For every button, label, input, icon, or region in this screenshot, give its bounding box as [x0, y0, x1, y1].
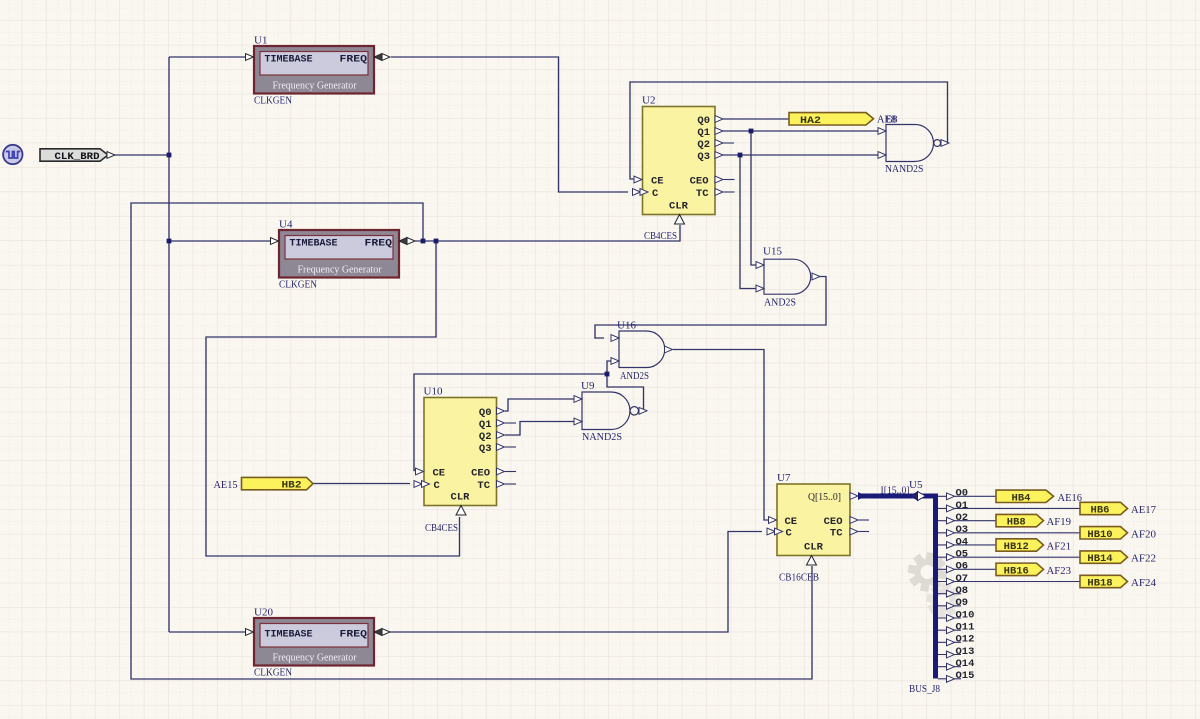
- wire Q1 branch to U15: [751, 131, 757, 265]
- wire U5 tap O14: [938, 666, 961, 668]
- svg-text:NAND2S: NAND2S: [582, 431, 622, 443]
- wire CLK_BRD vertical trunk: [168, 57, 170, 632]
- svg-text:HB10: HB10: [1087, 529, 1112, 541]
- pin O6: [947, 566, 955, 573]
- svg-text:O15: O15: [956, 670, 975, 682]
- svg-text:O13: O13: [956, 646, 975, 658]
- node clear net junction 2: [434, 239, 439, 244]
- wire to U4 TIMEBASE input: [169, 240, 270, 242]
- wire CLK_BRD tag to junction: [115, 154, 169, 156]
- wire clear net to U10 CLR: [206, 241, 460, 556]
- wire Q3 branch to U15: [740, 155, 757, 289]
- svg-text:CE: CE: [651, 176, 664, 188]
- wire U5 tap O6: [938, 568, 996, 570]
- svg-text:CLKGEN: CLKGEN: [254, 95, 292, 107]
- output tag HB14: [1080, 551, 1128, 565]
- pin O1: [947, 505, 955, 512]
- svg-text:U9: U9: [581, 380, 595, 392]
- svg-text:O1: O1: [956, 500, 969, 512]
- input port CLK_BRD: [40, 149, 115, 163]
- pin O2: [947, 517, 955, 524]
- pin O7: [947, 578, 955, 585]
- svg-text:U2: U2: [642, 95, 655, 107]
- wire U10 Q0 to U9 input: [505, 399, 574, 411]
- svg-text:CE: CE: [433, 468, 446, 480]
- wire U5 tap O13: [938, 654, 961, 656]
- wire U2 Q3 to NAND2S input: [723, 154, 878, 156]
- input tag HB2: [242, 477, 314, 491]
- svg-text:CLR: CLR: [804, 542, 824, 554]
- wire U5 tap O5: [938, 556, 1080, 558]
- svg-text:CLKGEN: CLKGEN: [279, 279, 317, 291]
- svg-text:AE16: AE16: [1058, 492, 1083, 504]
- svg-text:Frequency Generator: Frequency Generator: [273, 653, 357, 664]
- svg-text:TIMEBASE: TIMEBASE: [290, 237, 338, 249]
- frequency generator U20: [246, 607, 391, 679]
- output tag HB18: [1080, 575, 1128, 589]
- svg-text:TIMEBASE: TIMEBASE: [265, 53, 313, 65]
- oscillator source icon: [3, 145, 22, 164]
- svg-text:U1: U1: [254, 35, 267, 47]
- output tag HB12: [996, 539, 1044, 553]
- bus U7 Q to U5 thick: [858, 496, 936, 679]
- wire U2 Q0 to HA2 tag: [723, 118, 789, 120]
- wire U5 tap O12: [938, 641, 961, 643]
- pin O4: [947, 542, 955, 549]
- svg-text:E8: E8: [886, 114, 898, 126]
- svg-text:HB8: HB8: [1007, 517, 1026, 529]
- wire U20 FREQ to U7 C: [389, 532, 762, 633]
- wire to U20 TIMEBASE input: [169, 631, 245, 633]
- wire U5 tap O9: [938, 605, 961, 607]
- svg-text:O6: O6: [956, 561, 969, 573]
- svg-text:O7: O7: [956, 573, 969, 585]
- wire U1 FREQ to U2 C: [391, 57, 628, 192]
- wire U10 Q1 stub: [505, 422, 516, 424]
- pin O8: [947, 590, 955, 597]
- wire to U1 TIMEBASE input: [169, 56, 245, 58]
- svg-text:HB16: HB16: [1004, 565, 1029, 577]
- wire U5 tap O15: [938, 678, 961, 680]
- node Q1 junction: [749, 129, 754, 134]
- output tag HB8: [996, 514, 1044, 528]
- svg-text:U5: U5: [909, 479, 923, 491]
- frequency generator U4: [271, 219, 416, 291]
- counter U2 CB4CE: [633, 95, 735, 225]
- svg-text:C: C: [434, 480, 441, 492]
- svg-text:Q2: Q2: [479, 431, 492, 443]
- pin O10: [947, 615, 955, 622]
- svg-text:O9: O9: [956, 597, 969, 609]
- svg-text:CB4CES: CB4CES: [425, 522, 458, 534]
- pin O13: [947, 651, 955, 658]
- output tag HA2: [789, 113, 874, 127]
- svg-text:HB4: HB4: [1012, 492, 1031, 504]
- pin O3: [947, 529, 955, 536]
- svg-text:HA2: HA2: [800, 115, 821, 127]
- nand gate NAND2S (U8): [878, 125, 949, 176]
- wire U16 output to U7 CE: [673, 350, 769, 521]
- svg-text:FREQ: FREQ: [340, 53, 368, 65]
- wire node to U10 CE: [414, 374, 607, 471]
- svg-text:CE: CE: [785, 516, 798, 528]
- output tag HB10: [1080, 527, 1128, 541]
- svg-text:TC: TC: [830, 528, 843, 540]
- pin O9: [947, 602, 955, 609]
- bus pin bowtie on U5: [911, 492, 919, 501]
- wire U15 output to U16 input: [595, 277, 826, 339]
- svg-text:O2: O2: [956, 512, 969, 524]
- svg-text:TC: TC: [477, 480, 490, 492]
- node Q3 junction: [738, 153, 743, 158]
- wire U10 Q3 stub: [505, 446, 516, 448]
- svg-text:BUS_J8: BUS_J8: [909, 683, 940, 695]
- svg-text:U10: U10: [424, 386, 443, 398]
- counter U10 CB4CE: [414, 386, 516, 516]
- svg-text:HB12: HB12: [1004, 541, 1029, 553]
- pin O11: [947, 627, 955, 634]
- svg-text:CEO: CEO: [824, 516, 843, 528]
- wire U5 tap O7: [938, 580, 1080, 582]
- svg-text:Q0: Q0: [697, 115, 710, 127]
- svg-text:AND2S: AND2S: [620, 370, 649, 382]
- svg-text:CLR: CLR: [451, 492, 471, 504]
- svg-text:CLK_BRD: CLK_BRD: [55, 151, 100, 163]
- svg-text:O11: O11: [956, 621, 975, 633]
- svg-text:U7: U7: [777, 472, 791, 484]
- wire U2 Q2 stub: [723, 142, 734, 144]
- svg-text:Q1: Q1: [697, 127, 710, 139]
- wire U4 FREQ clear net main: [415, 225, 680, 241]
- pin O15: [947, 675, 955, 682]
- svg-text:HB6: HB6: [1091, 504, 1110, 516]
- svg-text:Q3: Q3: [697, 151, 710, 163]
- wire U5 tap O8: [938, 593, 961, 595]
- svg-text:Q1: Q1: [479, 419, 492, 431]
- wire U5 tap O1: [938, 507, 1080, 509]
- svg-text:AF20: AF20: [1131, 528, 1156, 540]
- node bus start square: [858, 492, 866, 500]
- node CLK_BRD junction 1: [167, 153, 172, 158]
- output tag HB4: [996, 490, 1054, 504]
- wire U5 tap O3: [938, 532, 1080, 534]
- svg-text:HB2: HB2: [282, 480, 302, 492]
- node clear net junction 1: [421, 239, 426, 244]
- node CLK_BRD junction 2: [167, 239, 172, 244]
- output tag HB16: [996, 563, 1044, 577]
- pin O5: [947, 554, 955, 561]
- pin O0: [947, 493, 955, 500]
- svg-text:NAND2S: NAND2S: [885, 163, 924, 175]
- counter U7 CB16CEB: [767, 472, 869, 565]
- svg-text:CLKGEN: CLKGEN: [254, 667, 292, 679]
- wire HB2 tag to U10 C: [313, 483, 410, 485]
- wire U5 tap O0: [938, 495, 996, 497]
- svg-text:TC: TC: [696, 188, 709, 200]
- svg-text:TIMEBASE: TIMEBASE: [265, 628, 313, 640]
- wire clear net up-left branch: [131, 203, 812, 679]
- svg-text:I[15..0]: I[15..0]: [881, 485, 910, 497]
- svg-text:AF21: AF21: [1047, 540, 1072, 552]
- svg-text:FREQ: FREQ: [340, 628, 368, 640]
- wire U5 tap O10: [938, 617, 961, 619]
- watermark gear large: [908, 552, 948, 592]
- and gate U16 AND2S: [611, 320, 673, 383]
- svg-text:AF24: AF24: [1131, 577, 1156, 589]
- svg-text:AF23: AF23: [1047, 565, 1072, 577]
- svg-text:U16: U16: [617, 320, 636, 332]
- svg-text:CB4CES: CB4CES: [644, 230, 677, 242]
- svg-text:Q[15..0]: Q[15..0]: [808, 491, 841, 503]
- svg-text:HB18: HB18: [1087, 577, 1112, 589]
- svg-text:AF22: AF22: [1131, 553, 1156, 565]
- svg-text:Frequency Generator: Frequency Generator: [273, 81, 357, 92]
- svg-text:O3: O3: [956, 524, 969, 536]
- svg-text:AE15: AE15: [214, 479, 238, 491]
- pin O12: [947, 639, 955, 646]
- svg-text:O0: O0: [956, 488, 969, 500]
- svg-text:C: C: [652, 188, 659, 200]
- node U9 output junction: [605, 372, 610, 377]
- svg-text:Frequency Generator: Frequency Generator: [298, 265, 382, 276]
- wire U5 tap O2: [938, 520, 996, 522]
- wire U2 Q1 to NAND2S input: [723, 130, 878, 132]
- output tag HB6: [1080, 502, 1128, 516]
- svg-text:U15: U15: [763, 246, 782, 258]
- svg-text:Q2: Q2: [697, 139, 710, 151]
- wire NAND2S output feedback to U2 CE: [630, 82, 948, 179]
- svg-text:AE17: AE17: [1131, 504, 1156, 516]
- svg-text:FREQ: FREQ: [365, 237, 393, 249]
- svg-text:O12: O12: [956, 634, 975, 646]
- svg-text:Q0: Q0: [479, 407, 492, 419]
- wire U5 tap O11: [938, 629, 961, 631]
- wire U9 output to node: [607, 361, 646, 411]
- svg-text:U20: U20: [254, 607, 273, 619]
- svg-text:CB16CEB: CB16CEB: [779, 572, 819, 584]
- svg-text:O8: O8: [956, 585, 969, 597]
- svg-text:AF19: AF19: [1047, 516, 1072, 528]
- svg-text:O5: O5: [956, 548, 969, 560]
- wire U5 tap O4: [938, 544, 996, 546]
- nand gate U9 NAND2S: [574, 380, 647, 443]
- svg-text:HB14: HB14: [1087, 553, 1112, 565]
- svg-text:Q3: Q3: [479, 443, 492, 455]
- svg-text:AND2S: AND2S: [764, 297, 796, 309]
- svg-text:CEO: CEO: [471, 468, 490, 480]
- svg-text:O4: O4: [956, 536, 969, 548]
- pin O14: [947, 663, 955, 670]
- watermark gear small: [926, 583, 961, 618]
- svg-text:CEO: CEO: [690, 176, 709, 188]
- svg-text:U4: U4: [279, 219, 293, 231]
- svg-text:O10: O10: [956, 609, 975, 621]
- svg-text:O14: O14: [956, 658, 975, 670]
- svg-text:C: C: [786, 528, 793, 540]
- and gate U15 AND2S: [756, 246, 820, 309]
- wire U10 Q2 to U9 input: [505, 422, 574, 436]
- svg-text:CLR: CLR: [669, 201, 689, 213]
- frequency generator U1: [246, 35, 391, 107]
